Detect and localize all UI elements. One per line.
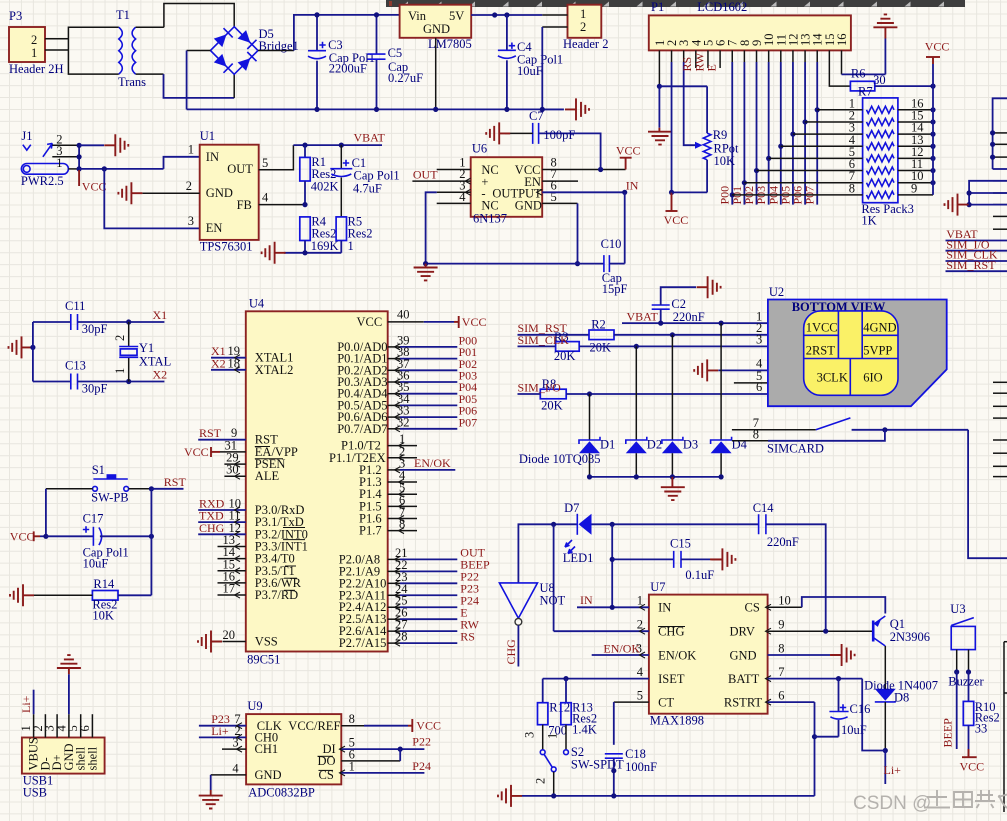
SIM card holder U2 BOTTOM VIEW [756,285,947,406]
wire U1 OUT up [259,145,294,170]
svg-text:VSS: VSS [255,635,278,649]
wire Header2 pin1 [542,14,567,16]
svg-text:T1: T1 [116,8,130,22]
svg-text:20: 20 [223,628,236,642]
svg-text:Q1: Q1 [890,617,905,631]
svg-text:2: 2 [31,33,37,47]
regulator U1 TPS76301 [186,129,269,254]
svg-text:16: 16 [835,34,849,47]
svg-text:CT: CT [658,696,674,710]
svg-text:Cap Pol1: Cap Pol1 [354,169,400,183]
svg-text:8: 8 [778,641,784,655]
ADC U9 ADC0832BP [232,699,354,800]
svg-text:VBAT: VBAT [627,309,659,323]
wire U6 pin7 stub [542,180,578,182]
svg-text:SW-PB: SW-PB [91,491,129,505]
svg-text:10K: 10K [92,609,114,623]
wire R7 to VCC rail [875,84,936,89]
svg-text:U6: U6 [472,142,487,156]
svg-text:Trans: Trans [118,75,146,89]
svg-text:SIM_CLK: SIM_CLK [518,333,570,347]
wire U9 pin8 VCC [341,719,441,733]
svg-text:20K: 20K [541,399,563,413]
svg-text:2: 2 [534,778,548,784]
ground at R4/R5 [262,242,286,264]
capacitor C2 [652,287,705,324]
watermark CSDN [853,790,1007,814]
wire LCD pin13 net P06 [802,50,807,204]
svg-text:9: 9 [778,618,784,632]
svg-text:XTAL2: XTAL2 [255,363,294,377]
wires staircase LCD to res pack [744,110,820,183]
wire LCD pin11 net P04 [778,50,783,204]
svg-text:R2: R2 [591,318,606,332]
capacitor C15 [612,537,722,583]
svg-text:3: 3 [523,732,537,738]
ground at U9 [199,796,223,809]
svg-text:P3: P3 [9,9,22,23]
wire R14 to RST [118,594,151,596]
svg-text:SIM_I/O: SIM_I/O [518,380,562,394]
wire U6 pin2 OUT [412,178,470,184]
svg-text:17: 17 [223,582,236,596]
svg-text:E: E [705,64,719,71]
svg-text:R6: R6 [851,67,866,81]
wire U6 pin4 [437,202,471,204]
crystal Y1 [113,322,171,382]
wire D7 net top [518,522,577,583]
net label P04 [766,186,780,205]
wire LCD pin2 [669,50,674,195]
svg-text:EN/OK: EN/OK [414,456,451,470]
power port VCC at LCD pin2 [664,192,689,227]
svg-text:VCC: VCC [82,180,107,194]
svg-text:4: 4 [637,665,644,679]
wires U4 port0 nets P00-P07 [388,333,477,431]
wire net SIM_CLK to edge [946,260,1007,262]
net label RST [164,475,187,489]
designator Diode 10TQ035 [519,452,601,466]
svg-text:RST: RST [164,475,187,489]
svg-text:1: 1 [56,156,62,170]
wire U7 pin6 RSTRT [766,688,818,796]
svg-text:USB: USB [23,786,47,800]
net label OUT [413,167,438,181]
svg-text:LM7805: LM7805 [428,37,472,51]
svg-text:VBAT: VBAT [354,131,386,145]
connector J1 PWR2.5 [21,129,69,188]
svg-text:D2: D2 [647,438,662,452]
wire LCD pin4 RS stub [695,50,697,68]
wire U7 pin2 CHG [554,618,649,635]
svg-text:U2: U2 [769,285,784,299]
wire BATT to Li+ [862,679,885,784]
svg-text:1VCC: 1VCC [806,321,838,335]
svg-text:1: 1 [31,46,37,60]
resistor R2 20K [518,318,615,355]
net label RS [680,57,694,72]
net label P05 [778,186,792,205]
svg-text:IN: IN [580,593,593,607]
svg-text:VCC: VCC [925,40,950,54]
svg-text:GND: GND [206,186,233,200]
svg-text:shell: shell [85,746,99,770]
wire SIM detect to edge [968,430,1007,558]
diode D8 1N4007 [864,679,938,754]
wires U4 port2 nets [388,546,490,646]
wire ground run under U6 [423,261,604,266]
svg-text:C18: C18 [625,747,646,761]
svg-text:IN: IN [626,179,639,193]
ground under diodes [661,487,685,500]
svg-text:VCC: VCC [616,144,641,158]
wire SIM_CLK to U2 pin3 [518,344,768,349]
svg-text:220nF: 220nF [673,310,705,324]
wire LM7805 GND down [433,38,438,112]
wire LCD pin15 to R7 [829,50,850,86]
capacitor C5 [368,12,424,112]
svg-text:CS: CS [745,601,760,615]
power port VCC at J1 [79,170,106,194]
svg-text:1.4K: 1.4K [572,723,597,737]
svg-text:6: 6 [778,688,784,702]
svg-text:GND: GND [423,22,450,36]
svg-text:S1: S1 [92,463,105,477]
svg-text:10: 10 [778,594,791,608]
switch S1 SW-PB [91,463,129,505]
wire LCD pin14 net P07 [815,50,820,204]
net label SIM_CLK [946,248,998,262]
svg-text:D7: D7 [564,501,579,515]
regulator U1 LM7805 [400,5,472,51]
svg-text:X2: X2 [211,356,226,370]
svg-text:10K: 10K [714,154,736,168]
ground at R14 [10,584,34,606]
svg-text:89C51: 89C51 [247,653,280,667]
net label VBAT [627,309,659,323]
capacitor C13 [65,359,164,396]
wires right edge connector upper pins [990,98,1007,229]
connector Header 2 [563,5,608,51]
wire U7 pin4 ISET [543,665,649,681]
net label VBAT [354,131,386,145]
svg-text:DRV: DRV [730,625,755,639]
transistor Q1 2N3906 [873,616,930,646]
svg-text:P0.7/AD7: P0.7/AD7 [337,422,387,436]
svg-text:30pF: 30pF [82,322,108,336]
svg-text:NOT: NOT [540,594,566,608]
net label IN [626,179,639,193]
wire U2 pin4 ground [718,369,768,371]
wire SIM power group [967,181,1007,207]
svg-text:5: 5 [637,688,643,702]
wire IN vertical [610,524,615,607]
svg-text:Li+: Li+ [19,695,33,713]
svg-text:9: 9 [911,181,917,195]
svg-text:BATT: BATT [728,672,760,686]
net label SIM_RST [946,258,996,272]
svg-text:LCD1602: LCD1602 [697,0,747,14]
wire U7 pin5 CT [614,688,649,745]
svg-text:2: 2 [113,335,127,341]
optocoupler U6 6N137 [459,142,557,226]
wire LCD pin1 [657,50,662,131]
svg-text:Li+: Li+ [884,763,902,777]
wire U9 GND [211,775,246,796]
resistor R9 RPot [703,86,739,192]
svg-text:R14: R14 [93,577,115,591]
wire U1 EN [104,169,199,229]
svg-text:VCC: VCC [10,530,35,544]
ground at U7 GND [831,644,855,666]
svg-text:Diode 10TQ035: Diode 10TQ035 [519,452,601,466]
svg-text:C3: C3 [328,38,343,52]
svg-text:40: 40 [397,307,410,321]
svg-text:C17: C17 [83,512,104,526]
wire CHG vertical [553,524,555,631]
svg-text:RSTRT: RSTRT [724,696,763,710]
power port VCC above R7 [925,40,950,87]
resistor R12 700 [523,701,571,750]
svg-text:8: 8 [753,428,759,442]
resistor R3 20K [554,330,579,363]
wire VCC vertical res pack [932,86,934,195]
ground under U6 [414,264,438,281]
svg-text:6N137: 6N137 [473,212,507,226]
resistor R7 30 [850,67,885,99]
svg-text:VCC: VCC [357,315,383,329]
wire Header2 pin2 to rail [540,27,568,112]
svg-text:1: 1 [546,733,560,739]
ground at J1 [104,134,128,156]
inverter U8 NOT [499,581,565,625]
wire J1 pin2 to ground [79,144,104,146]
capacitor C18 100nF [605,747,657,796]
net label E [705,64,719,71]
wire U7 pin8 GND [768,641,842,655]
MCU U4 89C51 [246,297,389,667]
wire U7 pin10 CS [766,594,886,614]
resistor R4 [300,215,339,254]
svg-text:C10: C10 [601,237,622,251]
wire USB pin4 GND [68,668,70,714]
ground at U4 VSS [198,631,222,653]
wire S1 right RST [129,486,184,491]
net label Li+ [884,763,902,777]
capacitor C10 [601,237,628,296]
svg-text:20K: 20K [554,349,576,363]
svg-text:U9: U9 [247,699,262,713]
wire U8 output CHG [517,625,519,666]
svg-text:VCC: VCC [462,315,487,329]
svg-text:P1.7: P1.7 [359,524,382,538]
svg-text:2N3906: 2N3906 [890,630,930,644]
wire ISET branch [543,679,566,703]
svg-text:Header 2H: Header 2H [9,62,64,76]
svg-text:402K: 402K [311,180,339,194]
wire U4 VSS pin20 [223,628,246,642]
wire U2 pin8 [732,428,885,442]
net label X1 [153,308,168,322]
capacitor C3 [308,12,375,112]
svg-text:J1: J1 [21,129,32,143]
wire U6 pin1 [437,169,471,171]
wire U6 pin6 IN [537,189,628,195]
svg-text:OUT: OUT [227,162,253,176]
svg-text:C13: C13 [65,359,86,373]
svg-text:20K: 20K [590,341,612,355]
svg-text:Vin: Vin [408,9,427,23]
svg-text:100nF: 100nF [625,760,657,774]
resistor R1 [300,145,339,205]
wire U6 pin3 [426,189,471,263]
wire buzzer left BEEP [956,672,958,749]
net label IN [580,593,593,607]
svg-text:Y1: Y1 [139,341,154,355]
wire U2 pin5 stub [734,382,768,384]
svg-text:VCC: VCC [664,213,689,227]
net label P02 [742,186,756,205]
svg-text:33: 33 [975,722,988,736]
svg-text:32: 32 [397,415,410,429]
svg-text:Li+: Li+ [211,724,229,738]
svg-text:2: 2 [186,179,192,193]
diode D4 [711,323,748,477]
LCD connector P1 LCD1602 [649,0,851,50]
wire U9 CLK P23 [199,712,246,729]
svg-text:BEEP: BEEP [941,718,955,748]
svg-text:RS: RS [460,629,475,643]
wire VBAT to U2 pin1 [622,321,768,326]
svg-text:VCC: VCC [416,719,441,733]
net label P03 [754,186,768,205]
wire 5V rail [471,12,542,17]
wire net SIM_RST to edge [946,270,1007,272]
wire D7 to C14 [592,522,759,527]
svg-text:2200uF: 2200uF [329,62,367,76]
svg-text:3: 3 [188,214,194,228]
bridge rectifier D5 [210,27,298,75]
wire U4 ALE stub [224,463,245,480]
wires res pack left pins [732,96,863,195]
svg-text:C11: C11 [65,299,85,313]
connector USB1 [19,725,105,800]
wire Q1 collector [884,646,886,689]
wire U9 CH0 Li+ [199,724,246,741]
svg-text:C5: C5 [388,46,403,60]
wire U2 pin7 switch [732,416,968,432]
wires USB pins [34,714,93,737]
wire U7 pin7 BATT [766,665,863,682]
svg-text:IN: IN [206,150,219,164]
svg-text:FB: FB [237,198,252,212]
svg-text:U7: U7 [650,580,665,594]
svg-text:4.7uF: 4.7uF [353,182,382,196]
wire LCD pin7 net P00 [730,50,735,204]
svg-text:2RST: 2RST [806,344,836,358]
ground at LCD pin16 [873,14,897,27]
wire net VBAT to edge [946,240,1007,242]
svg-text:30pF: 30pF [82,382,108,396]
net label VBAT [946,227,978,241]
wire U4 PSEN stub [224,451,245,468]
wire LCD pin16 to ground [842,27,886,74]
svg-text:5V: 5V [449,9,464,23]
ground at U1 GND [118,182,142,204]
svg-text:SIMCARD: SIMCARD [767,442,824,456]
wire U9 CS P24 [340,759,431,776]
wire diode rail [587,474,724,487]
wire U1 GND [143,192,200,194]
svg-text:R9: R9 [713,128,728,142]
right edge component fragment [1004,642,1007,812]
svg-text:100pF: 100pF [543,128,575,142]
net label BEEP [941,718,955,748]
wire U4 XTAL pins [211,344,246,373]
capacitor C1 [330,145,399,217]
svg-text:2: 2 [580,20,586,34]
ground at crystal [9,336,33,358]
buzzer U3 [948,602,984,689]
ground at LCD pin1 [648,132,672,145]
wire R4 R5 to ground [284,250,341,255]
svg-text:U4: U4 [249,297,265,311]
svg-text:1: 1 [348,239,354,253]
net label SIM_I/O [518,380,562,394]
wire U9 DI P22 [340,735,431,753]
svg-text:IN: IN [658,601,671,615]
power port VCC under R10 [960,725,985,773]
svg-text:10uF: 10uF [517,64,543,78]
svg-text:15pF: 15pF [602,282,628,296]
power port VCC at U6 pin8 [616,144,641,170]
diode D3 [662,335,698,477]
svg-text:1K: 1K [861,214,876,228]
svg-text:5VPP: 5VPP [863,344,892,358]
wire bridge left to DC- rail [187,51,211,110]
svg-text:EN/OK: EN/OK [658,648,696,662]
ground at C15 [711,548,735,570]
diode D1 [579,394,615,477]
ground power rail [565,98,589,120]
capacitor C7 [505,109,601,170]
svg-text:CHG: CHG [504,639,518,665]
power port VCC at C17 [10,530,49,544]
svg-text:LED1: LED1 [563,551,594,565]
svg-text:XTAL: XTAL [139,355,171,369]
svg-text:OUT: OUT [413,167,438,181]
svg-text:C2: C2 [671,297,686,311]
svg-text:P07: P07 [459,415,478,429]
svg-text:169K: 169K [311,239,339,253]
label SIMCARD [767,442,824,456]
svg-text:C7: C7 [529,109,544,123]
wire LCD pin9 net P02 [754,50,759,204]
svg-text:0.27uF: 0.27uF [388,71,423,85]
svg-text:EN/OK: EN/OK [603,641,640,655]
svg-text:SIM_RST: SIM_RST [946,258,996,272]
svg-text:U1: U1 [200,129,215,143]
net label SIM_I/O [946,237,990,251]
ground above C2 [697,276,721,298]
net label SIM_RST [518,321,568,335]
net label P01 [730,186,744,205]
wire net SIM_I/O to edge [946,250,1007,252]
svg-text:6IO: 6IO [863,371,882,385]
wire U1 FB [259,202,308,207]
wire S1 left [46,489,93,537]
svg-text:10uF: 10uF [83,557,109,571]
